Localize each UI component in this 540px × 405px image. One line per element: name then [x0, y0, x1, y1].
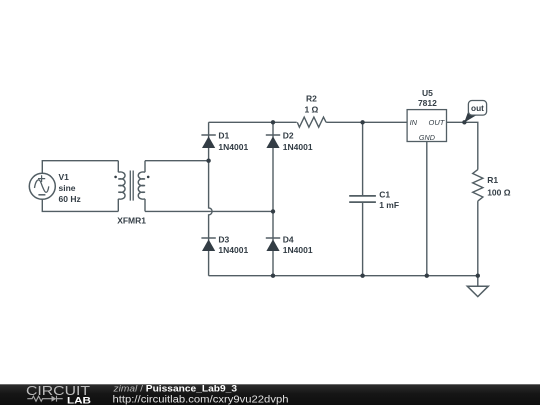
svg-text:R1: R1: [487, 175, 498, 185]
svg-text:C1: C1: [379, 190, 390, 200]
label R2: [304, 94, 318, 115]
wire V1 top to transformer: [42, 161, 118, 174]
svg-text:7812: 7812: [418, 98, 437, 108]
svg-text:D2: D2: [283, 131, 294, 141]
svg-text:60 Hz: 60 Hz: [59, 194, 81, 204]
wire secondary top to bridge: [145, 160, 209, 162]
wire top rail right of R2: [326, 121, 407, 123]
label D3: [218, 234, 248, 254]
label R1: [487, 175, 511, 198]
svg-text:1 mF: 1 mF: [379, 200, 399, 210]
svg-text:sine: sine: [59, 183, 76, 193]
svg-text:1 Ω: 1 Ω: [304, 104, 318, 114]
svg-text:http://circuitlab.com/cxry9vu2: http://circuitlab.com/cxry9vu22dvph: [113, 395, 289, 405]
label U5 value: [418, 88, 437, 108]
node bottom rail C1 junction: [360, 274, 364, 278]
label XFMR1: [117, 215, 146, 225]
pin label IN: [410, 118, 418, 127]
svg-text:U5: U5: [422, 88, 433, 98]
footer bar: [0, 384, 540, 405]
svg-text:R2: R2: [306, 94, 317, 104]
svg-text:1N4001: 1N4001: [218, 142, 248, 152]
wire U5 GND down: [426, 142, 428, 276]
diode D1: [201, 135, 215, 148]
wire top rail left of R2: [209, 121, 297, 123]
label V1 value: [59, 172, 81, 204]
wire ground stub: [477, 276, 479, 287]
pin label GND: [419, 133, 435, 142]
svg-text:zimal / Puissance_Lab9_3: zimal / Puissance_Lab9_3: [112, 384, 237, 395]
wire C1 branch bottom: [362, 202, 364, 276]
wire V1 bottom to transformer: [42, 199, 118, 211]
wire secondary bottom to bridge: [145, 210, 273, 212]
node dot out tap: [462, 120, 466, 124]
svg-text:1N4001: 1N4001: [218, 245, 248, 255]
label D2: [283, 131, 313, 152]
voltage source V1: [29, 173, 55, 199]
ground symbol: [467, 286, 488, 296]
logo diode: [52, 396, 63, 402]
svg-text:XFMR1: XFMR1: [117, 215, 146, 225]
label D4: [283, 234, 313, 254]
label D1: [218, 131, 248, 152]
svg-text:IN: IN: [410, 118, 418, 127]
svg-text:GND: GND: [419, 133, 435, 142]
svg-text:V1: V1: [59, 172, 70, 182]
capacitor C1: [349, 196, 376, 202]
svg-text:LAB: LAB: [67, 395, 91, 405]
node bottom rail D4 junction: [271, 274, 275, 278]
wire C1 branch top: [362, 122, 364, 196]
wire R1 to bottom rail: [477, 201, 479, 276]
flag out: [464, 101, 486, 123]
logo squiggle: [27, 396, 51, 401]
svg-text:D4: D4: [283, 234, 294, 244]
node top rail C1 junction: [360, 120, 364, 124]
pin label OUT: [429, 118, 446, 127]
svg-text:D3: D3: [218, 234, 229, 244]
wire right bridge branch: [272, 122, 274, 275]
transformer XFMR1: [114, 161, 149, 212]
svg-text:1N4001: 1N4001: [283, 142, 313, 152]
wire bottom rail: [209, 275, 478, 277]
node top rail D2 junction: [271, 120, 275, 124]
wire U5 OUT to corner: [447, 122, 478, 169]
svg-text:1N4001: 1N4001: [283, 245, 313, 255]
resistor R1: [473, 170, 483, 202]
svg-text:OUT: OUT: [429, 118, 446, 127]
resistor R2: [297, 117, 326, 127]
svg-text:out: out: [471, 103, 484, 113]
diode D3: [201, 238, 215, 251]
node bottom rail GND junction: [425, 274, 429, 278]
regulator U5 box: [407, 110, 446, 142]
diode D4: [266, 238, 280, 251]
diode D2: [266, 135, 280, 148]
svg-text:100 Ω: 100 Ω: [487, 188, 511, 198]
svg-text:D1: D1: [218, 131, 229, 141]
label C1: [379, 190, 399, 211]
node bottom rail ground junction: [476, 274, 480, 278]
node A secondary top junction: [206, 159, 210, 163]
wire left bridge branch with hop: [209, 122, 213, 275]
node B secondary bottom junction: [271, 209, 275, 213]
